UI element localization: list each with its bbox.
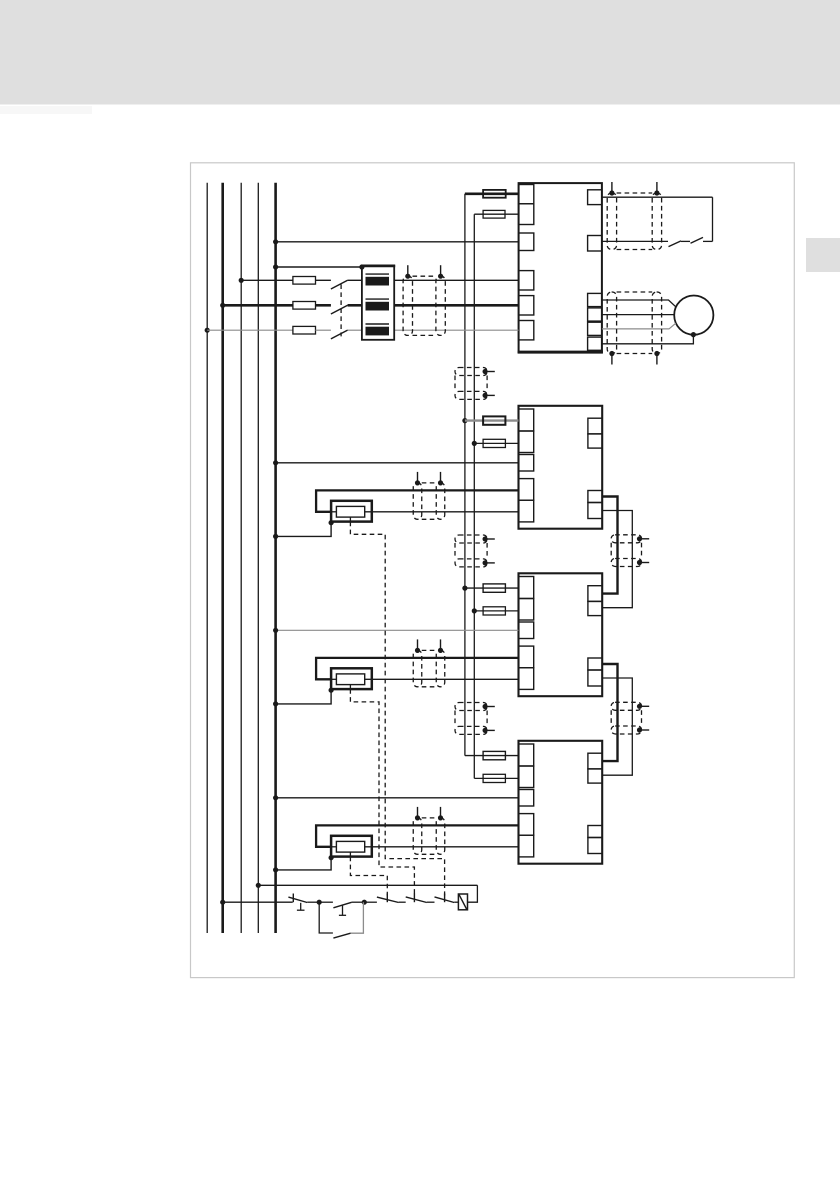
wire motor V [602,314,674,316]
wire T2 PE return [276,523,332,537]
faint header remnant [0,106,92,114]
filter choke core 2 [366,298,390,300]
wire X2 to fuse U2 [474,442,518,444]
U2 terminal +24 [519,409,534,431]
U4 terminal bus-out B [588,838,602,854]
drive U4 outline [519,741,603,864]
U3 terminal bus-in A [588,586,602,602]
wire bus link A U2-U3 (thick) [602,497,617,594]
contact S3 tick [413,894,415,903]
brake module T2 outline [331,501,372,522]
shield clamp bus link 2 [611,702,649,734]
U1 terminal 24E [519,233,534,251]
drive U1 outline [519,183,602,352]
node L1 tap [239,278,244,283]
shield clamp supply rails 1 [455,368,495,400]
relay coil K2 [458,894,467,910]
shield clamp thermostat cable [607,182,661,250]
drive U2 outline [519,406,603,529]
filter choke winding 2 [366,302,390,311]
wire S2 to S3 [399,901,406,903]
brake module T2 inner [336,506,364,517]
U2 terminal bus-out A [588,491,602,503]
node L3 tap [205,328,210,333]
brake module T2 stub [349,517,351,522]
fuse F12 [293,302,316,310]
drive U3 outline [519,573,603,696]
wire X2 to fuse U4 [474,777,518,779]
shield clamp brake cable U3 [413,639,445,686]
fuse F24b [483,774,505,782]
shield clamp brake cable U4 [413,807,445,854]
U3 terminal BD2 [519,668,534,690]
node PE tap T3 [273,701,278,706]
U4 terminal BD1 [519,814,534,836]
wire S0 to node A [307,901,319,903]
U1 terminal L2 [519,296,534,315]
wire PE to U1 24E [276,241,519,243]
wire T4 output [365,846,519,848]
contact S4 blade [435,897,455,903]
wire F1 feed (thick) [465,193,519,196]
wire L2 to fuse [223,304,293,307]
wire chain return [258,884,477,886]
node X2 tap U3 [472,608,477,613]
figure frame [191,163,795,978]
brake module T3 stub [349,685,351,690]
shield clamp motor cable [607,292,661,365]
wire T2 output [365,511,519,513]
bus line PE (thick) [274,183,277,933]
wire X1 to fuse U3 [465,587,519,589]
page header band [0,0,840,105]
wire T3 PE return [276,690,332,704]
wire branch down [319,902,333,933]
fuse F23b [483,607,505,615]
wire L1 to fuse [241,279,293,281]
wire motor U [602,300,676,307]
U1 terminal T2 [588,236,602,252]
linkage T2 to S4 [350,522,444,896]
U2 terminal bus-out B [588,503,602,519]
wire filter Z1 to U1 2 [394,304,518,307]
fuse F1 [483,190,506,198]
node PE tap U4 [273,795,278,800]
shield clamp brake cable U2 [413,472,445,519]
fuse F23a [483,584,505,592]
wire PE to U3 [276,629,519,631]
contact S0 tick [292,894,294,903]
fuse F22a [483,416,505,424]
brake module T3 inner [336,674,364,685]
U1 terminal PE-M [588,337,602,350]
contact S4 tick [444,894,446,903]
wire PE to U2 [276,462,519,464]
U4 terminal bus-out A [588,826,602,838]
wire K1 to filter Z1 2 [348,304,362,307]
contact S1 blade [333,902,351,908]
contact S2 blade [377,897,399,902]
filter choke core 1 [366,273,390,275]
wire T3 output [365,678,519,680]
contactor K1 blade 3 [331,330,348,339]
contact S2start blade [333,933,350,938]
fuse F2 [483,210,505,218]
drive U1 bottom edge [518,351,603,354]
node PE tap T2 [273,534,278,539]
thermostat contact blade a [669,241,682,247]
wire K1 to filter Z1 1 [348,279,362,281]
U2 terminal bus-in A [588,418,602,434]
wire T4 bracket top [316,825,518,846]
wire bus link B U2-U3 [602,511,632,608]
wire U1 T2 to thermostat [602,240,668,242]
bus line L2 (thick) [221,183,224,933]
node PE tap U3 [273,628,278,633]
wire thermostat right edge [712,197,714,241]
wire motor W [602,323,676,329]
wire node B to S2 [364,901,377,903]
bus line N (thin) [257,183,259,933]
wire K1 to filter Z1 3 [348,329,362,331]
brake module T3 outline [331,668,372,689]
wire S4 to relay K2 [454,901,458,903]
wire chain start [223,901,293,903]
U1 terminal L3 [519,321,534,340]
wire X2 to fuse U3 [474,610,518,612]
node T4 PE corner [329,855,334,860]
U1 terminal W [588,322,602,335]
fuse F22b [483,439,505,447]
contact S3 blade [406,897,427,903]
wire T3 inner left [331,678,336,680]
wire fuse to contactor K1 pole 2 [316,304,331,307]
filter choke winding 1 [366,277,390,286]
wire thermostat return [703,240,713,242]
wire T4 PE return [276,858,332,870]
wire X1 to fuse U2 [465,419,519,421]
wire L3 to fuse [207,329,293,331]
U1 terminal V [588,308,602,321]
contact S0 actuator [297,903,305,910]
U2 terminal GND [519,431,534,453]
U3 terminal PE [519,622,534,639]
wire X1 to fuse U4 [465,755,519,757]
wire fuse to contactor K1 pole 3 [316,329,331,331]
U3 terminal bus-out A [588,658,602,670]
bus line L1 (thin) [240,183,242,933]
thermostat contact blade b [691,237,704,243]
node L2 tap [220,303,225,308]
wire node A to S1 [319,901,333,903]
node motor PE [691,332,696,337]
U3 terminal +24 [519,577,534,599]
supply rail X2 (vertical) [473,214,475,778]
node X1 tap U3 [462,586,467,591]
filter Z1 top edge [361,264,395,267]
U2 terminal BD1 [519,479,534,501]
node L2 tap chain [220,900,225,905]
node T3 PE corner [329,688,334,693]
node PE tap filter [273,264,278,269]
linkage T3 to S3 [350,689,414,895]
motor M1 [674,296,713,335]
node N tap return [256,883,261,888]
brake module T4 outline [331,836,372,857]
contactor K1 blade 2 [331,305,348,314]
wire S3 to S4 [427,901,435,903]
wire T4 inner left [331,846,336,848]
U1 terminal +UG [519,185,534,204]
wire thermostat mid [681,240,690,242]
wire fuse to contactor K1 pole 1 [316,279,331,281]
U3 terminal bus-out B [588,670,602,686]
contact S1 actuator [339,905,346,915]
node X2 tap U2 [472,441,477,446]
brake module T4 stub [349,852,351,857]
U2 terminal PE [519,455,534,472]
filter Z1 outline [362,266,394,340]
U1 terminal U [588,293,602,306]
shield clamp supply rails 2 [455,535,495,567]
U2 terminal bus-in B [588,434,602,448]
U4 terminal BD2 [519,835,534,857]
brake module T4 inner [336,841,364,852]
shield clamp supply rails 3 [455,703,495,735]
wire U1 T1 to thermostat [602,196,713,198]
node X1 tap U2 [462,418,467,423]
page margin tab (right edge) [806,238,840,272]
shield clamp mains cable [403,265,445,335]
contact S0 blade [288,897,307,902]
contact S2 tick [386,894,388,903]
node filter PE corner [359,264,364,269]
node PE tap T4 [273,867,278,872]
filter choke core 3 [366,323,390,325]
U4 terminal bus-in A [588,753,602,769]
linkage T4 to S2 [350,857,387,896]
U1 terminal -UG [519,204,534,225]
supply rail X1 (vertical) [464,194,466,756]
wire T2 bracket top [316,490,518,511]
wire bus link A U3-U4 (thick) [602,664,617,761]
contactor K1 linkage [340,284,342,336]
fuse F13 [293,326,316,334]
U4 terminal +24 [519,744,534,766]
wire bus link B U3-U4 [602,678,632,775]
filter choke winding 3 [366,327,390,336]
wire filter Z1 to U1 1 [394,279,518,281]
wire motor PE [602,335,694,344]
U3 terminal bus-in B [588,601,602,615]
shield clamp bus link 1 [611,535,649,567]
node T2 PE corner [329,520,334,525]
contactor K1 blade 1 [331,280,348,289]
wire return drop [468,885,478,902]
wire filter Z1 to U1 3 [394,329,518,331]
wire T2 inner left [331,511,336,513]
U1 terminal T1 [588,190,602,205]
wire T3 bracket top [316,658,518,679]
node PE tap U2 [273,460,278,465]
node PE tap 24E [273,239,278,244]
U1 terminal L1 [519,271,534,290]
U3 terminal GND [519,599,534,621]
wire S1 to node B [352,901,365,903]
node A [317,900,322,905]
wire PE to filter Z1 [276,266,362,268]
bus line L3 (left, thin) [206,183,208,933]
fuse F24a [483,751,505,759]
wire branch up [351,902,364,933]
wire F2 feed [474,213,518,215]
fuse F11 [293,277,316,285]
U2 terminal BD2 [519,500,534,522]
U4 terminal PE [519,790,534,807]
U3 terminal BD1 [519,646,534,668]
wire PE to U4 [276,797,519,799]
node B [362,900,367,905]
U4 terminal GND [519,766,534,788]
U4 terminal bus-in B [588,769,602,783]
